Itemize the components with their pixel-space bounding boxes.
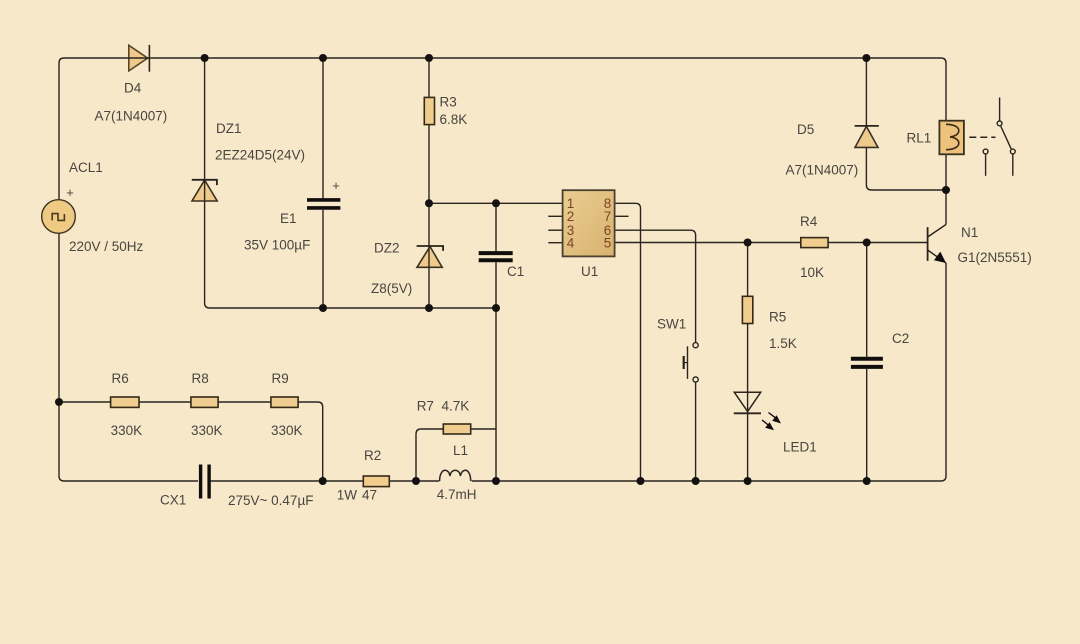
svg-text:R2: R2 bbox=[364, 448, 381, 463]
svg-text:330K: 330K bbox=[191, 423, 223, 438]
svg-text:+: + bbox=[66, 185, 74, 200]
svg-text:1W: 1W bbox=[337, 488, 358, 503]
svg-text:R3: R3 bbox=[440, 95, 457, 110]
svg-text:47: 47 bbox=[362, 488, 377, 503]
svg-text:R5: R5 bbox=[769, 310, 786, 325]
svg-text:7: 7 bbox=[604, 209, 612, 224]
svg-text:6.8K: 6.8K bbox=[440, 112, 468, 127]
svg-text:R7: R7 bbox=[417, 399, 434, 414]
svg-text:D5: D5 bbox=[797, 122, 814, 137]
svg-text:U1: U1 bbox=[581, 264, 598, 279]
svg-text:ACL1: ACL1 bbox=[69, 160, 103, 175]
svg-text:A7(1N4007): A7(1N4007) bbox=[786, 163, 859, 178]
svg-text:220V / 50Hz: 220V / 50Hz bbox=[69, 239, 144, 254]
svg-text:330K: 330K bbox=[271, 423, 303, 438]
svg-text:D4: D4 bbox=[124, 81, 142, 96]
svg-text:4: 4 bbox=[567, 236, 575, 251]
svg-text:L1: L1 bbox=[453, 443, 468, 458]
svg-text:Z8(5V): Z8(5V) bbox=[371, 281, 412, 296]
svg-text:35V 100µF: 35V 100µF bbox=[244, 238, 310, 253]
svg-text:E1: E1 bbox=[280, 211, 297, 226]
svg-text:R4: R4 bbox=[800, 214, 818, 229]
svg-text:1.5K: 1.5K bbox=[769, 336, 797, 351]
svg-text:R8: R8 bbox=[192, 371, 209, 386]
svg-text:4.7mH: 4.7mH bbox=[437, 487, 477, 502]
svg-text:R6: R6 bbox=[112, 371, 129, 386]
svg-text:SW1: SW1 bbox=[657, 317, 686, 332]
svg-text:+: + bbox=[332, 178, 340, 193]
svg-text:10K: 10K bbox=[800, 265, 824, 280]
svg-text:LED1: LED1 bbox=[783, 440, 817, 455]
svg-text:330K: 330K bbox=[111, 423, 143, 438]
svg-text:DZ2: DZ2 bbox=[374, 241, 400, 256]
svg-text:4.7K: 4.7K bbox=[442, 399, 470, 414]
svg-text:C1: C1 bbox=[507, 264, 524, 279]
svg-text:275V~ 0.47µF: 275V~ 0.47µF bbox=[228, 493, 313, 508]
svg-text:G1(2N5551): G1(2N5551) bbox=[958, 250, 1032, 265]
svg-text:R9: R9 bbox=[272, 371, 289, 386]
svg-text:C2: C2 bbox=[892, 331, 909, 346]
svg-text:2: 2 bbox=[567, 209, 575, 224]
svg-text:A7(1N4007): A7(1N4007) bbox=[95, 108, 168, 123]
svg-text:N1: N1 bbox=[961, 225, 978, 240]
svg-text:DZ1: DZ1 bbox=[216, 121, 242, 136]
svg-text:RL1: RL1 bbox=[907, 131, 932, 146]
svg-text:CX1: CX1 bbox=[160, 493, 186, 508]
svg-text:2EZ24D5(24V): 2EZ24D5(24V) bbox=[215, 148, 305, 163]
svg-text:5: 5 bbox=[604, 236, 612, 251]
